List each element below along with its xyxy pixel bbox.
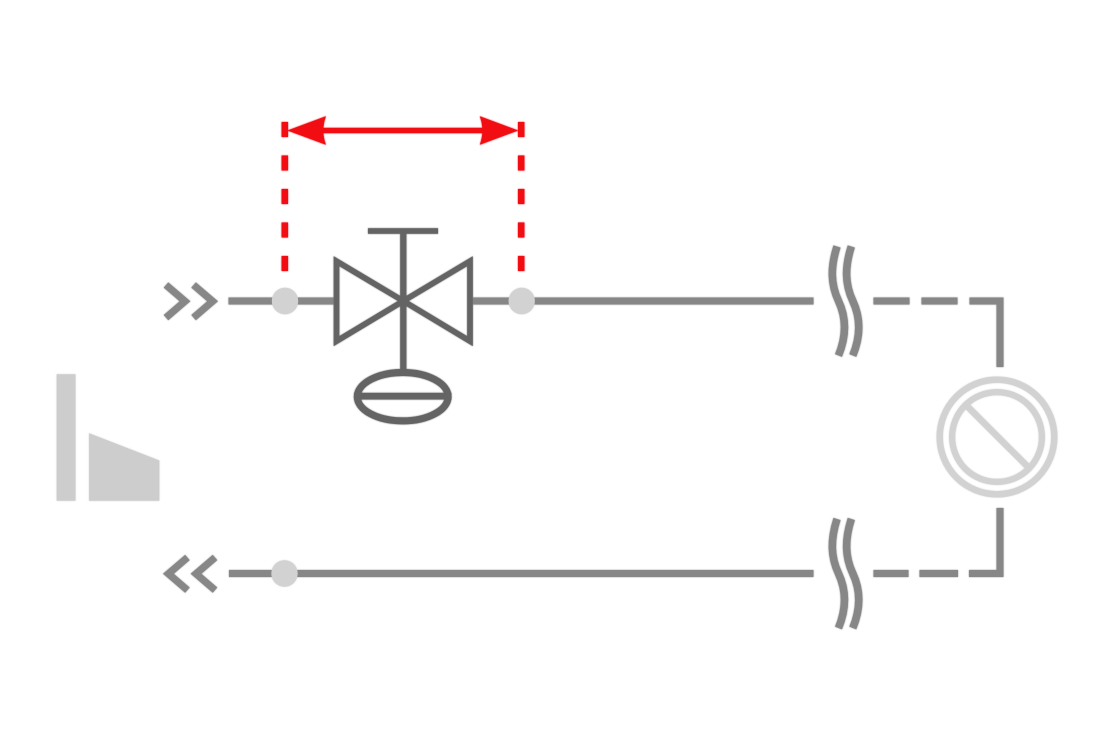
crisp pass (57, 116, 1055, 628)
soft halo pass (57, 116, 1055, 628)
